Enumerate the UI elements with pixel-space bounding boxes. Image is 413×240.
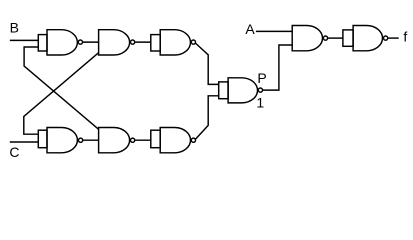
nand-gate U5 bubble bbox=[131, 138, 135, 142]
nand-gate U6 bubble bbox=[191, 138, 195, 142]
nand-gate U6 body bbox=[160, 128, 190, 153]
wire cross from G4 upper input to G2 lower input bbox=[24, 53, 99, 135]
nand-gate U8 input box bbox=[343, 30, 353, 46]
nand-gate P input box bbox=[219, 82, 228, 99]
wire U3 out to P-gate top input bbox=[195, 43, 218, 84]
nand-gate U7 body bbox=[292, 26, 322, 51]
nand-gate U1 body bbox=[47, 30, 77, 55]
wire U1 out to U2 in bbox=[83, 41, 99, 43]
nand-gate U8 body bbox=[353, 26, 382, 51]
nand-gate U5 body bbox=[99, 128, 130, 153]
svg-text:C: C bbox=[9, 144, 19, 160]
wire f output bbox=[388, 37, 399, 39]
wire U6 out to P-gate bottom input bbox=[195, 96, 218, 140]
svg-text:1: 1 bbox=[256, 94, 264, 110]
nand-gate U4 body bbox=[47, 128, 77, 153]
svg-text:A: A bbox=[245, 21, 255, 37]
wire U4 out to U5 in bbox=[83, 139, 99, 141]
wire B input bbox=[10, 39, 39, 41]
wire P out to U7 lower input bbox=[263, 45, 293, 90]
wire C input bbox=[10, 141, 39, 143]
nand-gate U3 body bbox=[160, 30, 190, 55]
nand-gate U1 input box bbox=[38, 35, 47, 51]
svg-text:P: P bbox=[257, 70, 266, 86]
nand-gate P bubble bbox=[258, 88, 262, 92]
nand-gate U3 bubble bbox=[191, 40, 195, 44]
nand-gate U8 bubble bbox=[384, 36, 388, 40]
wire U7 out to U8 in bbox=[328, 37, 343, 39]
nand-gate U1 bubble bbox=[78, 40, 82, 44]
nand-gate P body bbox=[228, 78, 257, 103]
wire cross from G1 lower input to G5 upper input bbox=[24, 47, 99, 129]
nand-gate U2 body bbox=[99, 30, 130, 55]
svg-text:B: B bbox=[10, 19, 19, 35]
wire A input bbox=[256, 30, 292, 32]
nand-gate U6 input box bbox=[151, 130, 160, 148]
wire U2 out to U3 in bbox=[135, 41, 151, 43]
svg-text:f: f bbox=[403, 29, 407, 45]
nand-gate U2 bubble bbox=[131, 40, 135, 44]
nand-gate U7 bubble bbox=[323, 36, 327, 40]
nand-gate U4 input box bbox=[38, 130, 47, 148]
nand-gate U3 input box bbox=[151, 35, 160, 51]
wire U5 out to U6 in bbox=[135, 139, 151, 141]
nand-gate U4 bubble bbox=[79, 138, 83, 142]
